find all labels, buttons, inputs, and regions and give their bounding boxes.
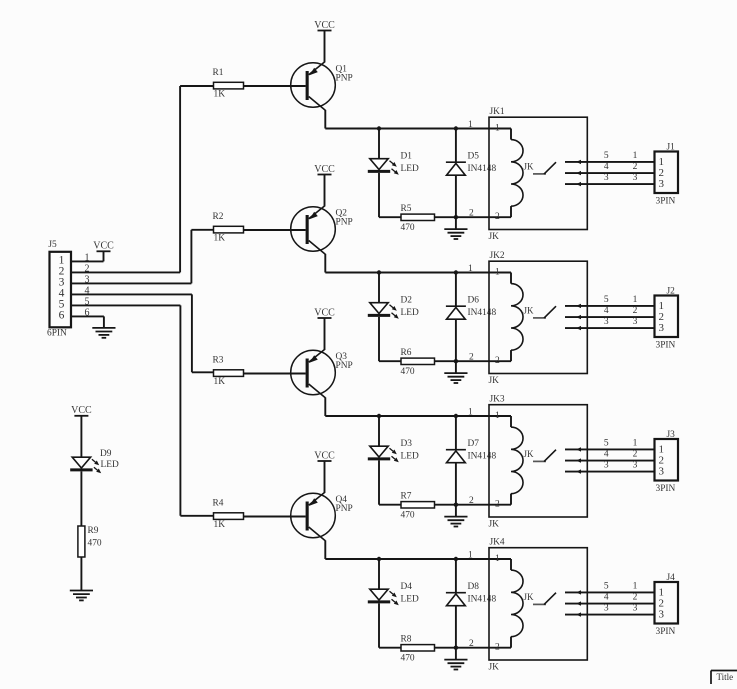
svg-text:JK4: JK4 — [490, 537, 505, 547]
svg-text:470: 470 — [88, 539, 102, 549]
svg-text:2: 2 — [495, 212, 500, 222]
svg-text:5: 5 — [604, 295, 609, 305]
svg-text:3: 3 — [604, 317, 609, 327]
svg-text:4: 4 — [85, 286, 90, 297]
svg-text:2: 2 — [495, 356, 500, 366]
svg-text:3: 3 — [659, 322, 665, 334]
svg-text:2: 2 — [85, 264, 90, 275]
svg-text:1: 1 — [85, 253, 90, 264]
svg-text:LED: LED — [401, 308, 419, 318]
svg-text:JK2: JK2 — [490, 251, 505, 261]
svg-text:JK1: JK1 — [490, 107, 505, 117]
svg-text:D8: D8 — [468, 582, 480, 592]
svg-text:2: 2 — [633, 162, 638, 172]
svg-text:D2: D2 — [401, 296, 413, 306]
svg-text:D7: D7 — [468, 439, 480, 449]
svg-text:PNP: PNP — [336, 504, 353, 514]
svg-text:3: 3 — [604, 604, 609, 614]
svg-text:JK: JK — [524, 592, 535, 602]
svg-text:4: 4 — [604, 306, 609, 316]
svg-text:470: 470 — [401, 367, 415, 377]
svg-text:2: 2 — [633, 449, 638, 459]
svg-text:D1: D1 — [401, 152, 413, 162]
svg-text:4: 4 — [604, 162, 609, 172]
svg-text:J2: J2 — [667, 287, 676, 297]
svg-text:D4: D4 — [401, 582, 413, 592]
svg-text:IN4148: IN4148 — [468, 308, 497, 318]
svg-text:R8: R8 — [401, 635, 412, 645]
svg-text:6PIN: 6PIN — [47, 328, 67, 338]
svg-text:2: 2 — [633, 306, 638, 316]
svg-text:JK: JK — [489, 376, 500, 386]
svg-text:JK: JK — [489, 232, 500, 242]
svg-text:3: 3 — [633, 317, 638, 327]
svg-text:JK: JK — [524, 449, 535, 459]
svg-text:R5: R5 — [401, 204, 412, 214]
svg-text:2: 2 — [495, 500, 500, 510]
svg-text:3: 3 — [633, 173, 638, 183]
svg-text:3: 3 — [85, 275, 90, 286]
svg-text:1: 1 — [633, 438, 638, 448]
svg-text:J1: J1 — [667, 143, 676, 153]
svg-text:R9: R9 — [88, 526, 99, 536]
svg-text:PNP: PNP — [336, 73, 353, 83]
svg-text:PNP: PNP — [336, 361, 353, 371]
svg-text:470: 470 — [401, 511, 415, 521]
svg-text:JK: JK — [524, 305, 535, 315]
svg-text:6: 6 — [59, 309, 65, 321]
svg-text:IN4148: IN4148 — [468, 595, 497, 605]
svg-text:R6: R6 — [401, 348, 412, 358]
svg-text:R7: R7 — [401, 492, 412, 502]
svg-text:3: 3 — [659, 178, 665, 190]
svg-text:3: 3 — [633, 461, 638, 471]
svg-text:3PIN: 3PIN — [656, 627, 676, 637]
svg-text:5: 5 — [604, 151, 609, 161]
svg-text:LED: LED — [401, 452, 419, 462]
svg-text:2: 2 — [469, 352, 474, 362]
svg-text:LED: LED — [101, 460, 119, 470]
svg-text:1K: 1K — [214, 89, 226, 99]
svg-text:3: 3 — [604, 173, 609, 183]
svg-text:470: 470 — [401, 223, 415, 233]
svg-text:JK3: JK3 — [490, 394, 505, 404]
svg-text:PNP: PNP — [336, 217, 353, 227]
svg-text:1: 1 — [495, 124, 500, 134]
svg-text:D3: D3 — [401, 439, 413, 449]
svg-text:J3: J3 — [667, 430, 676, 440]
svg-text:IN4148: IN4148 — [468, 164, 497, 174]
svg-text:2: 2 — [469, 639, 474, 649]
svg-text:3: 3 — [659, 609, 665, 621]
svg-text:J4: J4 — [667, 573, 676, 583]
svg-text:3PIN: 3PIN — [656, 196, 676, 206]
svg-text:470: 470 — [401, 654, 415, 664]
svg-text:2: 2 — [633, 592, 638, 602]
svg-text:5: 5 — [604, 438, 609, 448]
svg-text:1: 1 — [633, 151, 638, 161]
svg-text:2: 2 — [469, 496, 474, 506]
svg-text:3PIN: 3PIN — [656, 340, 676, 350]
svg-text:VCC: VCC — [93, 241, 114, 252]
svg-text:1: 1 — [468, 264, 473, 274]
svg-text:1: 1 — [468, 550, 473, 560]
svg-text:6: 6 — [85, 308, 90, 319]
svg-text:5: 5 — [604, 581, 609, 591]
svg-text:1: 1 — [633, 581, 638, 591]
svg-text:1: 1 — [495, 411, 500, 421]
svg-text:1: 1 — [468, 407, 473, 417]
svg-text:JK: JK — [489, 663, 500, 673]
svg-text:R4: R4 — [213, 499, 224, 509]
svg-text:D5: D5 — [468, 152, 480, 162]
svg-text:5: 5 — [85, 297, 90, 308]
svg-text:LED: LED — [401, 164, 419, 174]
svg-text:4: 4 — [604, 592, 609, 602]
svg-text:3: 3 — [659, 466, 665, 478]
svg-text:J5: J5 — [48, 240, 57, 250]
svg-text:3: 3 — [604, 461, 609, 471]
svg-text:IN4148: IN4148 — [468, 452, 497, 462]
svg-text:1: 1 — [495, 554, 500, 564]
svg-text:Title: Title — [717, 672, 734, 682]
svg-text:1K: 1K — [214, 520, 226, 530]
svg-text:1: 1 — [468, 120, 473, 130]
svg-text:JK: JK — [489, 520, 500, 530]
svg-text:2: 2 — [469, 208, 474, 218]
svg-text:VCC: VCC — [71, 405, 92, 416]
svg-text:VCC: VCC — [314, 307, 335, 318]
svg-text:D6: D6 — [468, 296, 480, 306]
svg-text:4: 4 — [604, 449, 609, 459]
svg-text:JK: JK — [524, 161, 535, 171]
svg-text:VCC: VCC — [314, 164, 335, 175]
svg-text:VCC: VCC — [314, 450, 335, 461]
svg-text:R2: R2 — [213, 212, 224, 222]
svg-text:3PIN: 3PIN — [656, 484, 676, 494]
svg-text:1K: 1K — [214, 233, 226, 243]
svg-text:R3: R3 — [213, 356, 224, 366]
svg-text:1: 1 — [633, 295, 638, 305]
svg-text:R1: R1 — [213, 68, 224, 78]
svg-text:3: 3 — [633, 604, 638, 614]
svg-text:VCC: VCC — [314, 20, 335, 31]
svg-text:1: 1 — [495, 268, 500, 278]
svg-text:LED: LED — [401, 595, 419, 605]
svg-text:1K: 1K — [214, 377, 226, 387]
svg-text:2: 2 — [495, 643, 500, 653]
svg-text:D9: D9 — [100, 449, 112, 459]
